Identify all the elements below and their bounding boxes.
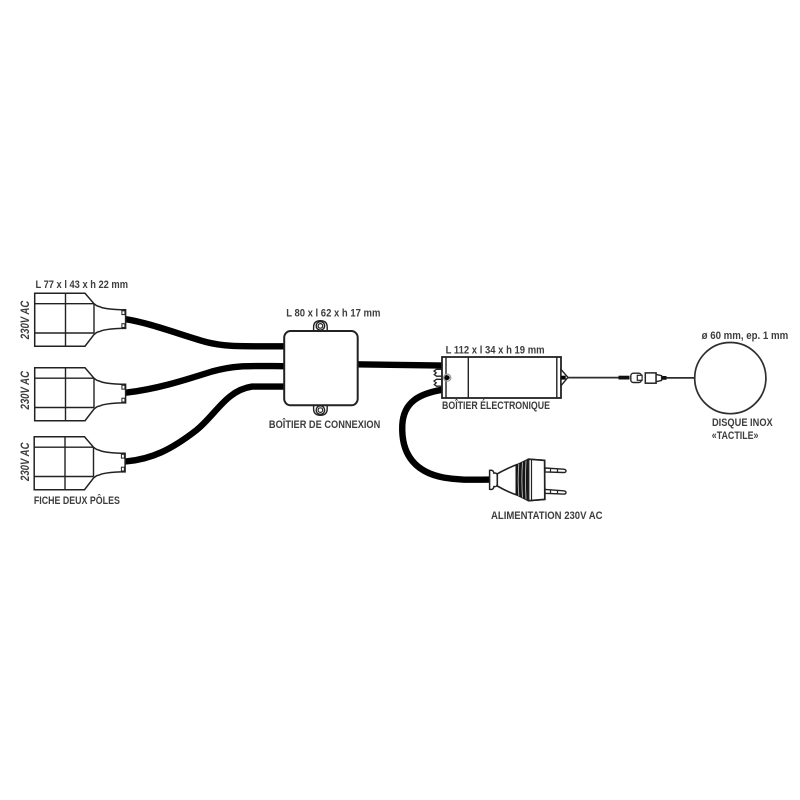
svg-text:230V AC: 230V AC [18, 301, 32, 340]
svg-text:BOÎTIER DE CONNEXION: BOÎTIER DE CONNEXION [269, 418, 380, 431]
svg-text:230V AC: 230V AC [18, 371, 32, 410]
svg-text:BOÎTIER ÉLECTRONIQUE: BOÎTIER ÉLECTRONIQUE [442, 399, 550, 412]
svg-text:DISQUE INOX: DISQUE INOX [712, 417, 773, 429]
svg-text:FICHE DEUX PÔLES: FICHE DEUX PÔLES [34, 494, 120, 507]
svg-text:«TACTILE»: «TACTILE» [712, 430, 759, 442]
svg-text:ø 60 mm, ep. 1 mm: ø 60 mm, ep. 1 mm [702, 330, 789, 342]
svg-text:230V AC: 230V AC [18, 442, 32, 481]
svg-text:L 80 x l 62 x h 17 mm: L 80 x l 62 x h 17 mm [286, 308, 380, 320]
svg-text:ALIMENTATION 230V AC: ALIMENTATION 230V AC [491, 510, 603, 522]
svg-text:L 112 x l 34 x h 19 mm: L 112 x l 34 x h 19 mm [446, 344, 545, 356]
svg-text:L 77 x l 43 x h 22 mm: L 77 x l 43 x h 22 mm [36, 279, 129, 291]
